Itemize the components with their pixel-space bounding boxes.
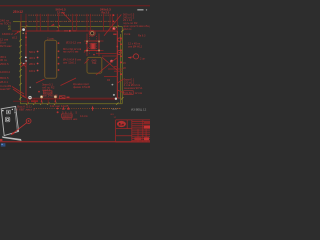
bright dot on top edge <box>69 30 71 32</box>
gray dash top right <box>137 9 143 10</box>
svg-text:560±0.5 низ: 560±0.5 низ <box>62 117 78 121</box>
connector inner rect <box>91 43 95 49</box>
svg-text:16±1: 16±1 <box>29 69 36 73</box>
plate inner square <box>7 110 11 114</box>
dim ticks <box>19 25 123 105</box>
chain dimension dotted row 2 <box>29 20 113 22</box>
leader lines <box>12 12 124 98</box>
svg-text:Ø3.5-12 отв: Ø3.5-12 отв <box>66 40 82 44</box>
title block <box>116 120 150 142</box>
connector outer rect <box>87 41 99 51</box>
square cutout <box>87 57 102 73</box>
connector cluster horizontals <box>84 40 104 42</box>
svg-text:12 отв: 12 отв <box>57 11 65 15</box>
svg-text:28±1: 28±1 <box>29 62 36 66</box>
svg-text:Вид А (2:1): Вид А (2:1) <box>17 105 31 109</box>
svg-text:пз 3: пз 3 <box>112 108 117 111</box>
balloon leader <box>11 123 27 135</box>
holes right edge <box>118 38 121 41</box>
dim line right vertical A <box>120 34 122 104</box>
blue selection box bottom-left <box>1 143 6 146</box>
svg-text:25 h12: 25 h12 <box>13 10 23 14</box>
balloon circle right <box>133 54 138 59</box>
plate inner rounded square <box>5 117 9 122</box>
dim line right vertical B <box>121 27 123 104</box>
hole top-right bright <box>113 27 116 30</box>
svg-text:12 отв: 12 отв <box>135 91 143 95</box>
text labels <box>0 8 111 122</box>
dim line bottom overall <box>20 103 122 105</box>
red dots on right dim line <box>120 37 122 75</box>
red dots column near right chain ends <box>113 14 115 16</box>
svg-text:56±1: 56±1 <box>29 50 36 54</box>
title block bright cells <box>134 122 150 140</box>
bullet dots left column <box>37 51 39 72</box>
svg-text:на глуб 6 мм: на глуб 6 мм <box>63 50 78 54</box>
svg-text:120±0.2: 120±0.2 <box>0 70 11 74</box>
svg-text:±0.2: ±0.2 <box>12 35 18 39</box>
detail view plate <box>0 106 31 141</box>
title block right rows <box>132 120 150 122</box>
plate thickness wedge <box>2 136 22 141</box>
pink dot <box>110 60 113 63</box>
slot cutout <box>45 40 57 78</box>
extension lines above panel <box>21 14 117 31</box>
dimension layer (olive) <box>13 22 122 104</box>
small dots misc <box>25 36 27 38</box>
svg-text:2 шт: 2 шт <box>140 58 146 61</box>
plate corner dots <box>2 110 4 112</box>
arrowhead at panel bl corner <box>22 95 25 98</box>
panel outline <box>26 31 117 100</box>
svg-text:14 отв: 14 отв <box>80 114 88 118</box>
svg-text:2 отв: 2 отв <box>47 37 54 41</box>
dim line left vertical <box>19 22 21 104</box>
extension lines below panel <box>12 31 55 104</box>
misc red lines right mid <box>96 54 122 77</box>
svg-text:ИЗ ВЕЩ 12: ИЗ ВЕЩ 12 <box>131 107 147 111</box>
svg-text:Ra 6.3: Ra 6.3 <box>138 35 146 38</box>
red tip mark <box>0 139 2 141</box>
svg-text:112 шаг 14х25: 112 шаг 14х25 <box>50 104 69 108</box>
chain dot marker <box>57 108 59 110</box>
svg-text:зенковка 90°х1: зенковка 90°х1 <box>124 86 143 90</box>
svg-text:40±1: 40±1 <box>29 56 36 60</box>
chain dimension dotted row 1 <box>29 14 113 16</box>
svg-text:шаг 12±0.1: шаг 12±0.1 <box>63 61 77 65</box>
connector slot fill <box>91 44 94 49</box>
svg-text:25±0.5: 25±0.5 <box>0 62 9 66</box>
chain dimension dotted row bottom <box>34 108 121 110</box>
chain diamond marker <box>92 106 94 109</box>
arrowhead small top-left <box>17 31 20 33</box>
svg-text:Н14: Н14 <box>92 62 97 65</box>
svg-text:Н12 пз: Н12 пз <box>123 27 132 31</box>
connector cluster verticals <box>84 34 104 57</box>
arrows to bottom eyelets <box>41 99 43 102</box>
svg-text:Ra 2.5: Ra 2.5 <box>102 11 110 15</box>
hole big top <box>89 30 95 36</box>
lower offsheet band <box>0 142 150 150</box>
right notes column <box>118 12 150 100</box>
connector corner holes (tan) <box>86 41 88 43</box>
svg-text:фаски 0.5х45: фаски 0.5х45 <box>73 85 91 89</box>
title block logo <box>117 121 126 127</box>
svg-text:зенк 90°: зенк 90° <box>0 87 11 91</box>
bullet dots beside slot <box>58 42 60 71</box>
sheet border bottom <box>0 141 150 142</box>
dim line top short <box>13 21 27 23</box>
bottom eyelets <box>28 96 31 99</box>
svg-text:отв Ø4 Н12: отв Ø4 Н12 <box>128 44 143 48</box>
eyelet top-left gray <box>22 28 25 31</box>
sheet border top <box>0 5 150 6</box>
box around row <box>43 91 52 94</box>
balloon marker <box>26 119 31 124</box>
svg-text:R2.5 мах: R2.5 мах <box>0 44 12 48</box>
svg-text:3 отв: 3 отв <box>124 32 131 36</box>
marker box with X on bottom edge <box>60 96 66 99</box>
gray dots near right edge <box>112 84 114 86</box>
dark red dash above detail <box>13 100 30 103</box>
white dots on left edge <box>25 57 27 59</box>
dim line top overall <box>20 26 122 28</box>
